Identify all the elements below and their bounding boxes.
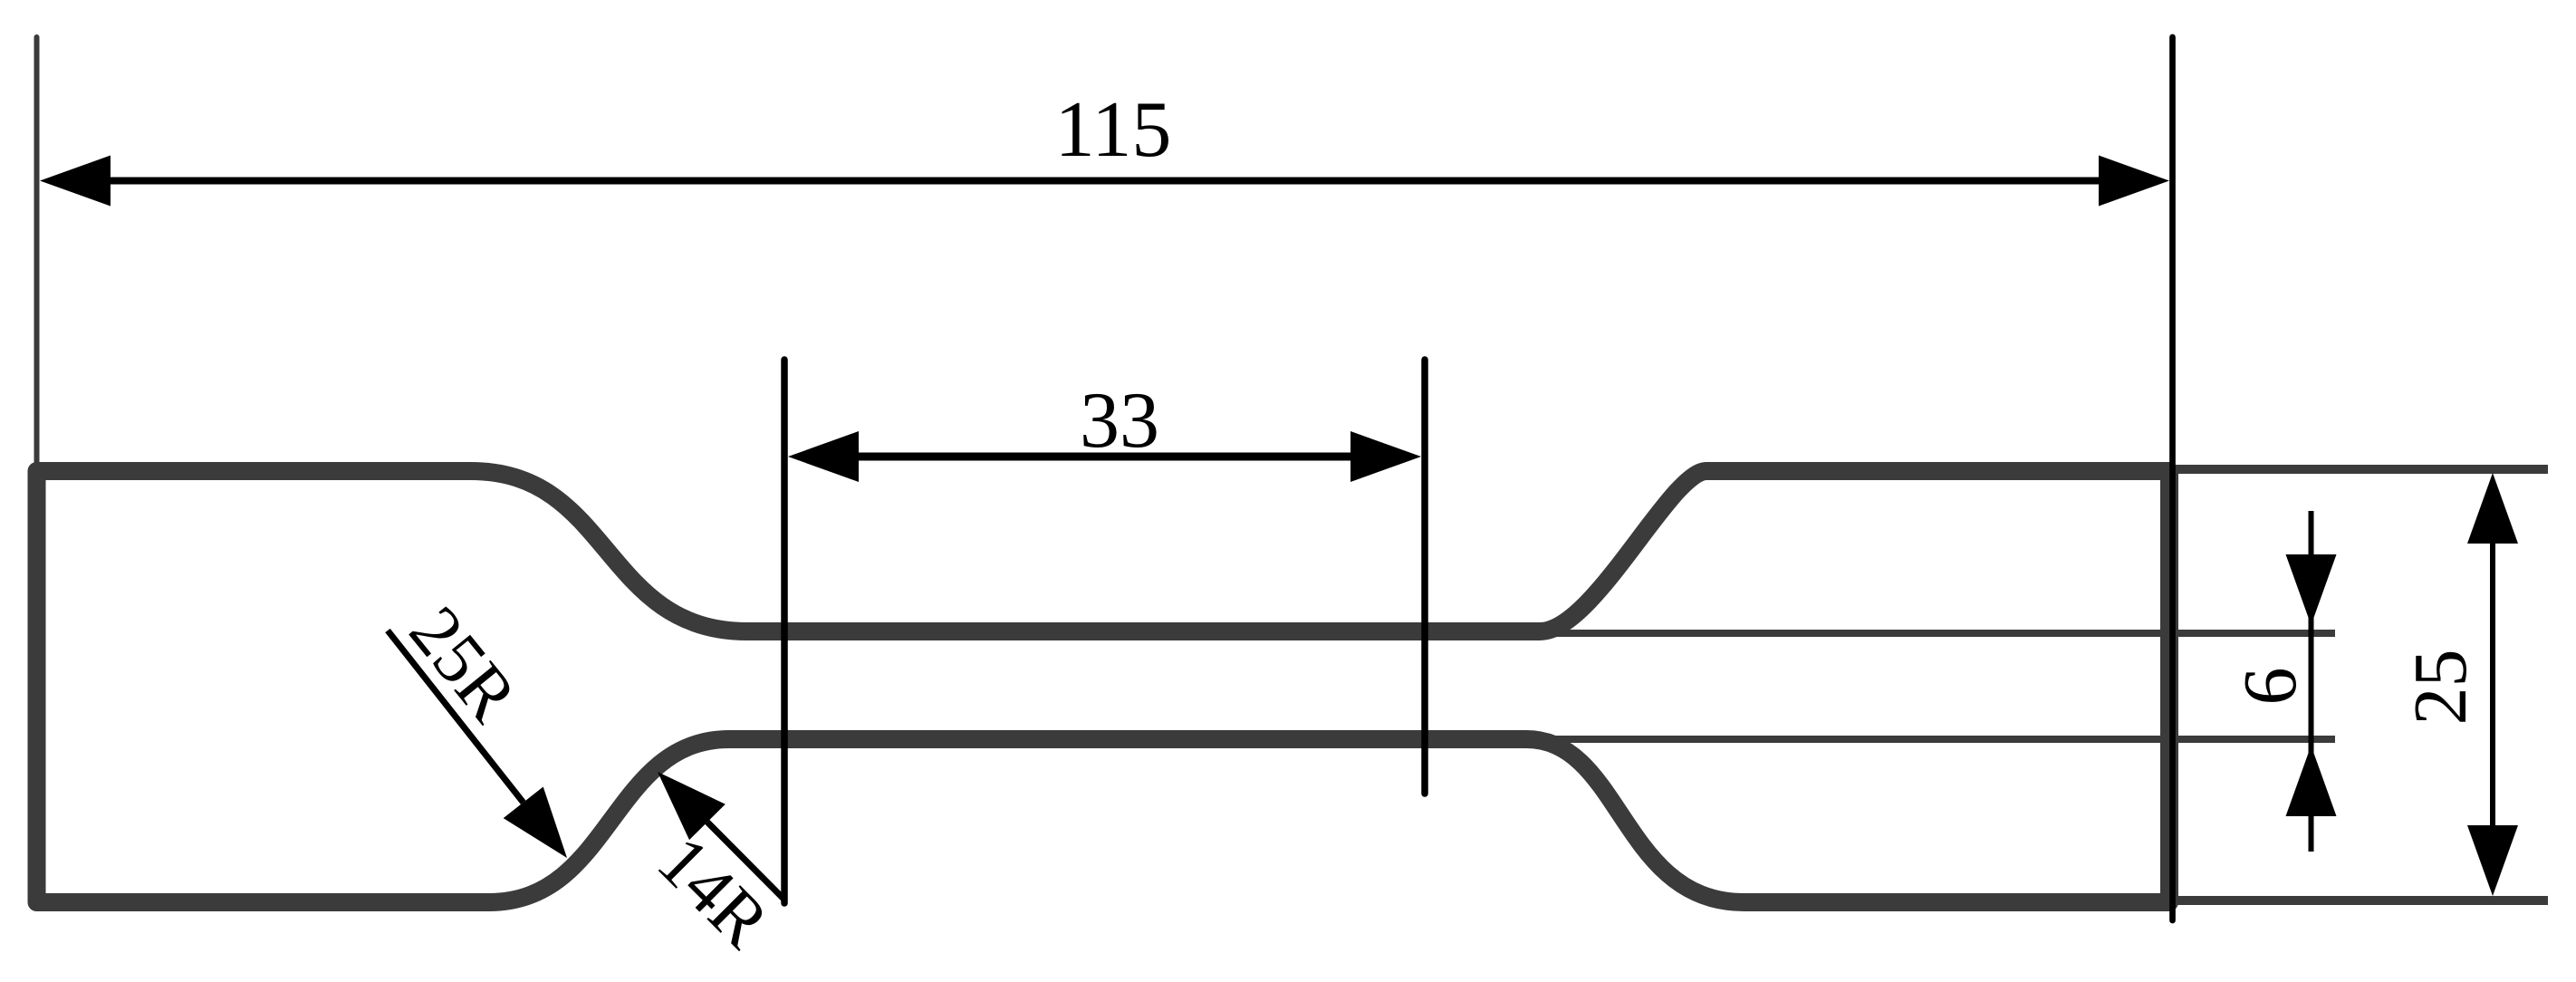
dimension line 6 vertical shaft [2309, 511, 2314, 852]
svg-text:33: 33 [1080, 377, 1159, 465]
right extension line of 33 dimension [1421, 360, 1428, 794]
dimension 115 right arrowhead [2099, 156, 2169, 207]
specimen outline (dog-bone tensile specimen) [37, 471, 2170, 902]
left extension line of 115 dimension [34, 37, 40, 467]
dimension line 25 vertical shaft [2490, 489, 2495, 879]
dimension 6 top arrowhead (pointing down) [2286, 554, 2337, 625]
dimension 33 left arrowhead [788, 431, 859, 482]
dimension 115 left arrowhead [40, 156, 111, 207]
narrow-section top extension line [1543, 630, 2335, 637]
svg-text:6: 6 [2228, 668, 2312, 706]
svg-text:25: 25 [2398, 650, 2483, 726]
dimension line 115 shaft [107, 178, 2102, 185]
svg-text:115: 115 [1055, 86, 1172, 174]
dimension 25 top arrowhead (pointing up) [2467, 473, 2518, 544]
dimension 33 right arrowhead [1350, 431, 1421, 482]
grip top edge extension line [2174, 465, 2548, 474]
left extension line of 33 dimension [781, 360, 788, 903]
leader line 14R [707, 822, 783, 899]
narrow-section bottom extension line [1543, 736, 2335, 743]
right extension line of 115 dimension [2169, 37, 2176, 920]
leader line 25R [388, 631, 524, 803]
leader 14R arrowhead [658, 772, 726, 840]
dimension 6 bottom arrowhead (pointing up) [2286, 746, 2337, 816]
dimension 25 bottom arrowhead (pointing down) [2467, 825, 2518, 896]
grip bottom edge extension line [2174, 896, 2548, 905]
leader 25R arrowhead [504, 787, 567, 859]
dimension line 33 shaft [855, 453, 1354, 461]
